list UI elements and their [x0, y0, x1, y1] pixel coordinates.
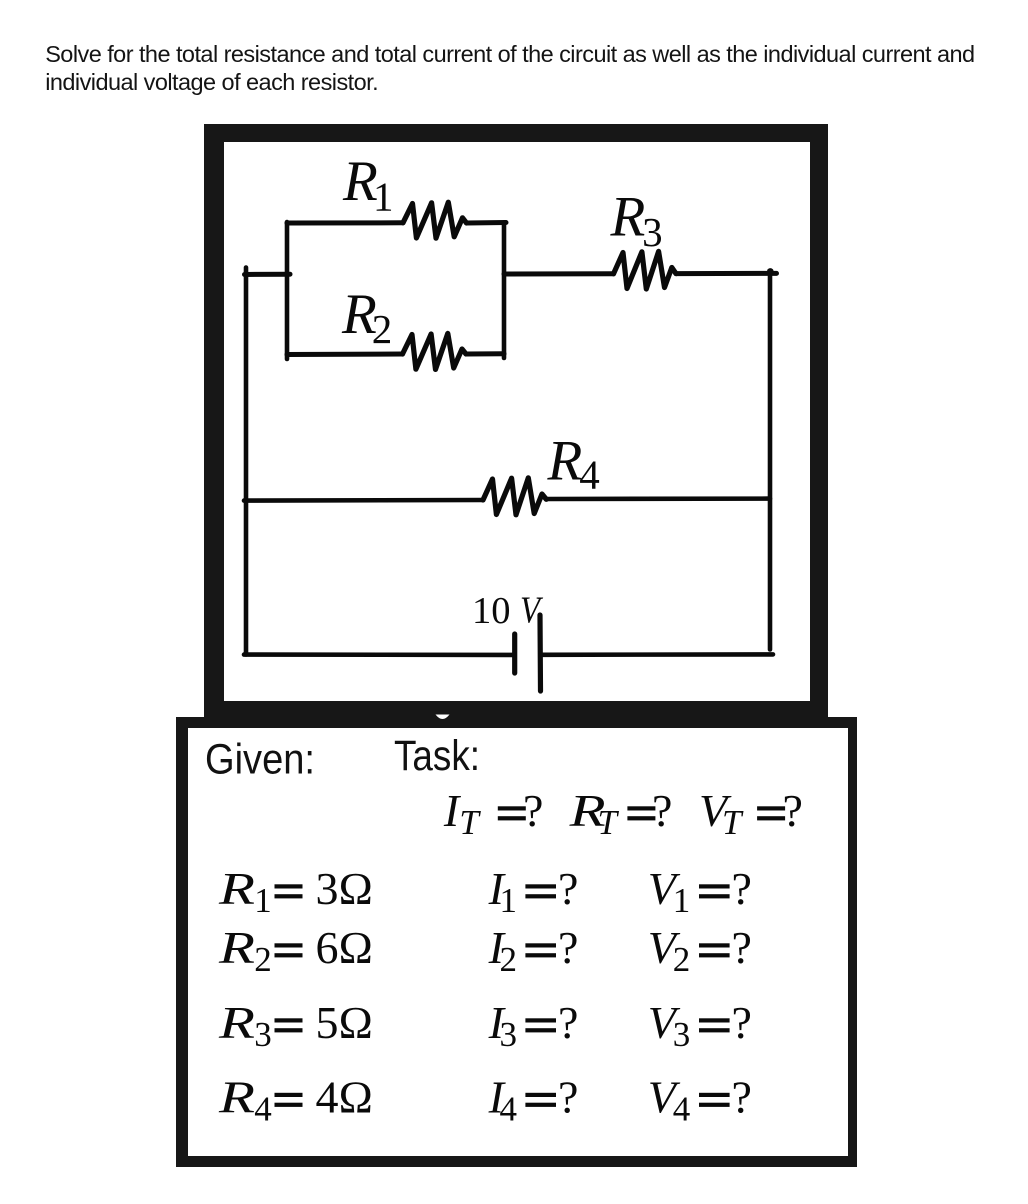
svg-text:R: R [218, 997, 255, 1048]
equation VT=? [699, 785, 803, 842]
wire: parallel box right vertical [502, 223, 507, 359]
resistor R2 [403, 333, 467, 369]
svg-text:?: ? [783, 785, 803, 836]
svg-text:Task:: Task: [394, 732, 480, 780]
svg-text:?: ? [652, 785, 672, 836]
equation V2=? [648, 922, 752, 979]
svg-text:?: ? [523, 785, 543, 836]
resistor R3 [614, 251, 677, 289]
wire: top branch right segment [467, 220, 507, 226]
equation R2=6ohm [218, 922, 373, 979]
svg-text:R: R [218, 922, 255, 973]
wire: bottom branch of parallel box, left segment [287, 352, 403, 358]
svg-text:1: 1 [673, 881, 691, 920]
svg-text:Ω: Ω [339, 863, 373, 914]
label 10 V [472, 590, 544, 632]
svg-text:?: ? [558, 922, 578, 973]
white notch on band between boxes [436, 715, 450, 720]
svg-text:1: 1 [254, 881, 271, 920]
svg-text:Given:: Given: [205, 736, 315, 784]
wire: parallel box left vertical [285, 222, 290, 359]
svg-text:?: ? [558, 1072, 578, 1123]
wire: left lead into parallel box [245, 272, 291, 277]
wire: bottom branch of parallel box, right segment [466, 351, 504, 356]
svg-text:3: 3 [254, 1015, 271, 1054]
svg-text:3: 3 [673, 1015, 691, 1054]
circuit frame box [204, 124, 828, 719]
problem statement text [45, 40, 1025, 97]
equation V3=? [648, 997, 752, 1054]
wire: right vertical branch [768, 273, 773, 650]
svg-text:Ω: Ω [339, 922, 373, 973]
svg-text:3: 3 [316, 863, 339, 914]
svg-text:?: ? [732, 997, 752, 1048]
svg-text:1: 1 [500, 881, 518, 920]
wire: bottom left segment to battery [244, 652, 515, 657]
svg-text:T: T [598, 803, 620, 842]
wire: left vertical branch [244, 268, 249, 655]
label R1 [342, 150, 394, 219]
equation V4=? [648, 1072, 752, 1129]
svg-text:6: 6 [316, 922, 339, 973]
resistor R1 [403, 202, 467, 238]
svg-text:?: ? [732, 1072, 752, 1123]
node: top-right junction dot [767, 268, 774, 275]
equation R1=3ohm [218, 863, 373, 920]
svg-text:4: 4 [673, 1090, 691, 1129]
label R3 [610, 186, 663, 256]
equation I4=? [488, 1072, 579, 1129]
svg-text:?: ? [732, 922, 752, 973]
svg-text:Ω: Ω [339, 1072, 373, 1123]
svg-text:2: 2 [673, 940, 691, 979]
equation I1=? [488, 863, 579, 920]
equation R4=4ohm [218, 1072, 373, 1129]
equation I2=? [488, 922, 579, 979]
wire: from R3 to right corner [676, 271, 777, 276]
battery negative plate (short) [512, 634, 517, 673]
svg-text:2: 2 [372, 306, 393, 352]
svg-text:4: 4 [316, 1072, 339, 1123]
svg-text:R: R [218, 1072, 255, 1123]
label R2 [341, 283, 392, 352]
wire: bottom right segment from battery [541, 652, 774, 657]
given/task frame box [176, 717, 857, 1167]
label R4 [547, 430, 600, 498]
svg-text:T: T [722, 803, 744, 842]
svg-text:R: R [218, 863, 255, 914]
wire: lead from parallel box to R3 [504, 271, 614, 276]
svg-text:1: 1 [373, 173, 394, 219]
svg-text:3: 3 [500, 1015, 518, 1054]
wire: middle branch right segment [546, 496, 770, 501]
resistor R4 [483, 478, 546, 515]
svg-text:T: T [459, 803, 481, 842]
svg-text:R: R [610, 186, 646, 249]
svg-text:?: ? [732, 863, 752, 914]
battery positive plate (long) [537, 615, 543, 691]
wire: middle branch left segment [244, 498, 483, 503]
equation IT=? [443, 785, 544, 842]
svg-text:R: R [547, 430, 583, 493]
svg-text:3: 3 [642, 209, 663, 255]
equation RT=? [568, 785, 672, 842]
svg-text:2: 2 [500, 940, 518, 979]
equation V1=? [648, 863, 752, 920]
equation I3=? [488, 997, 579, 1054]
svg-text:4: 4 [579, 451, 600, 497]
svg-text:2: 2 [254, 940, 271, 979]
svg-text:?: ? [558, 997, 578, 1048]
equation R3=5ohm [218, 997, 373, 1054]
svg-text:5: 5 [316, 997, 339, 1048]
svg-text:4: 4 [254, 1090, 271, 1129]
svg-text:4: 4 [500, 1090, 518, 1129]
svg-text:Ω: Ω [339, 997, 373, 1048]
svg-text:?: ? [558, 863, 578, 914]
svg-text:10: 10 [472, 590, 511, 632]
wire: top branch left segment [287, 220, 403, 225]
